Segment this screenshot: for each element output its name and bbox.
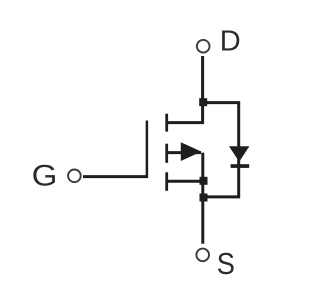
- svg-text:S: S: [217, 247, 235, 281]
- svg-text:G: G: [32, 159, 58, 192]
- svg-text:D: D: [220, 26, 241, 58]
